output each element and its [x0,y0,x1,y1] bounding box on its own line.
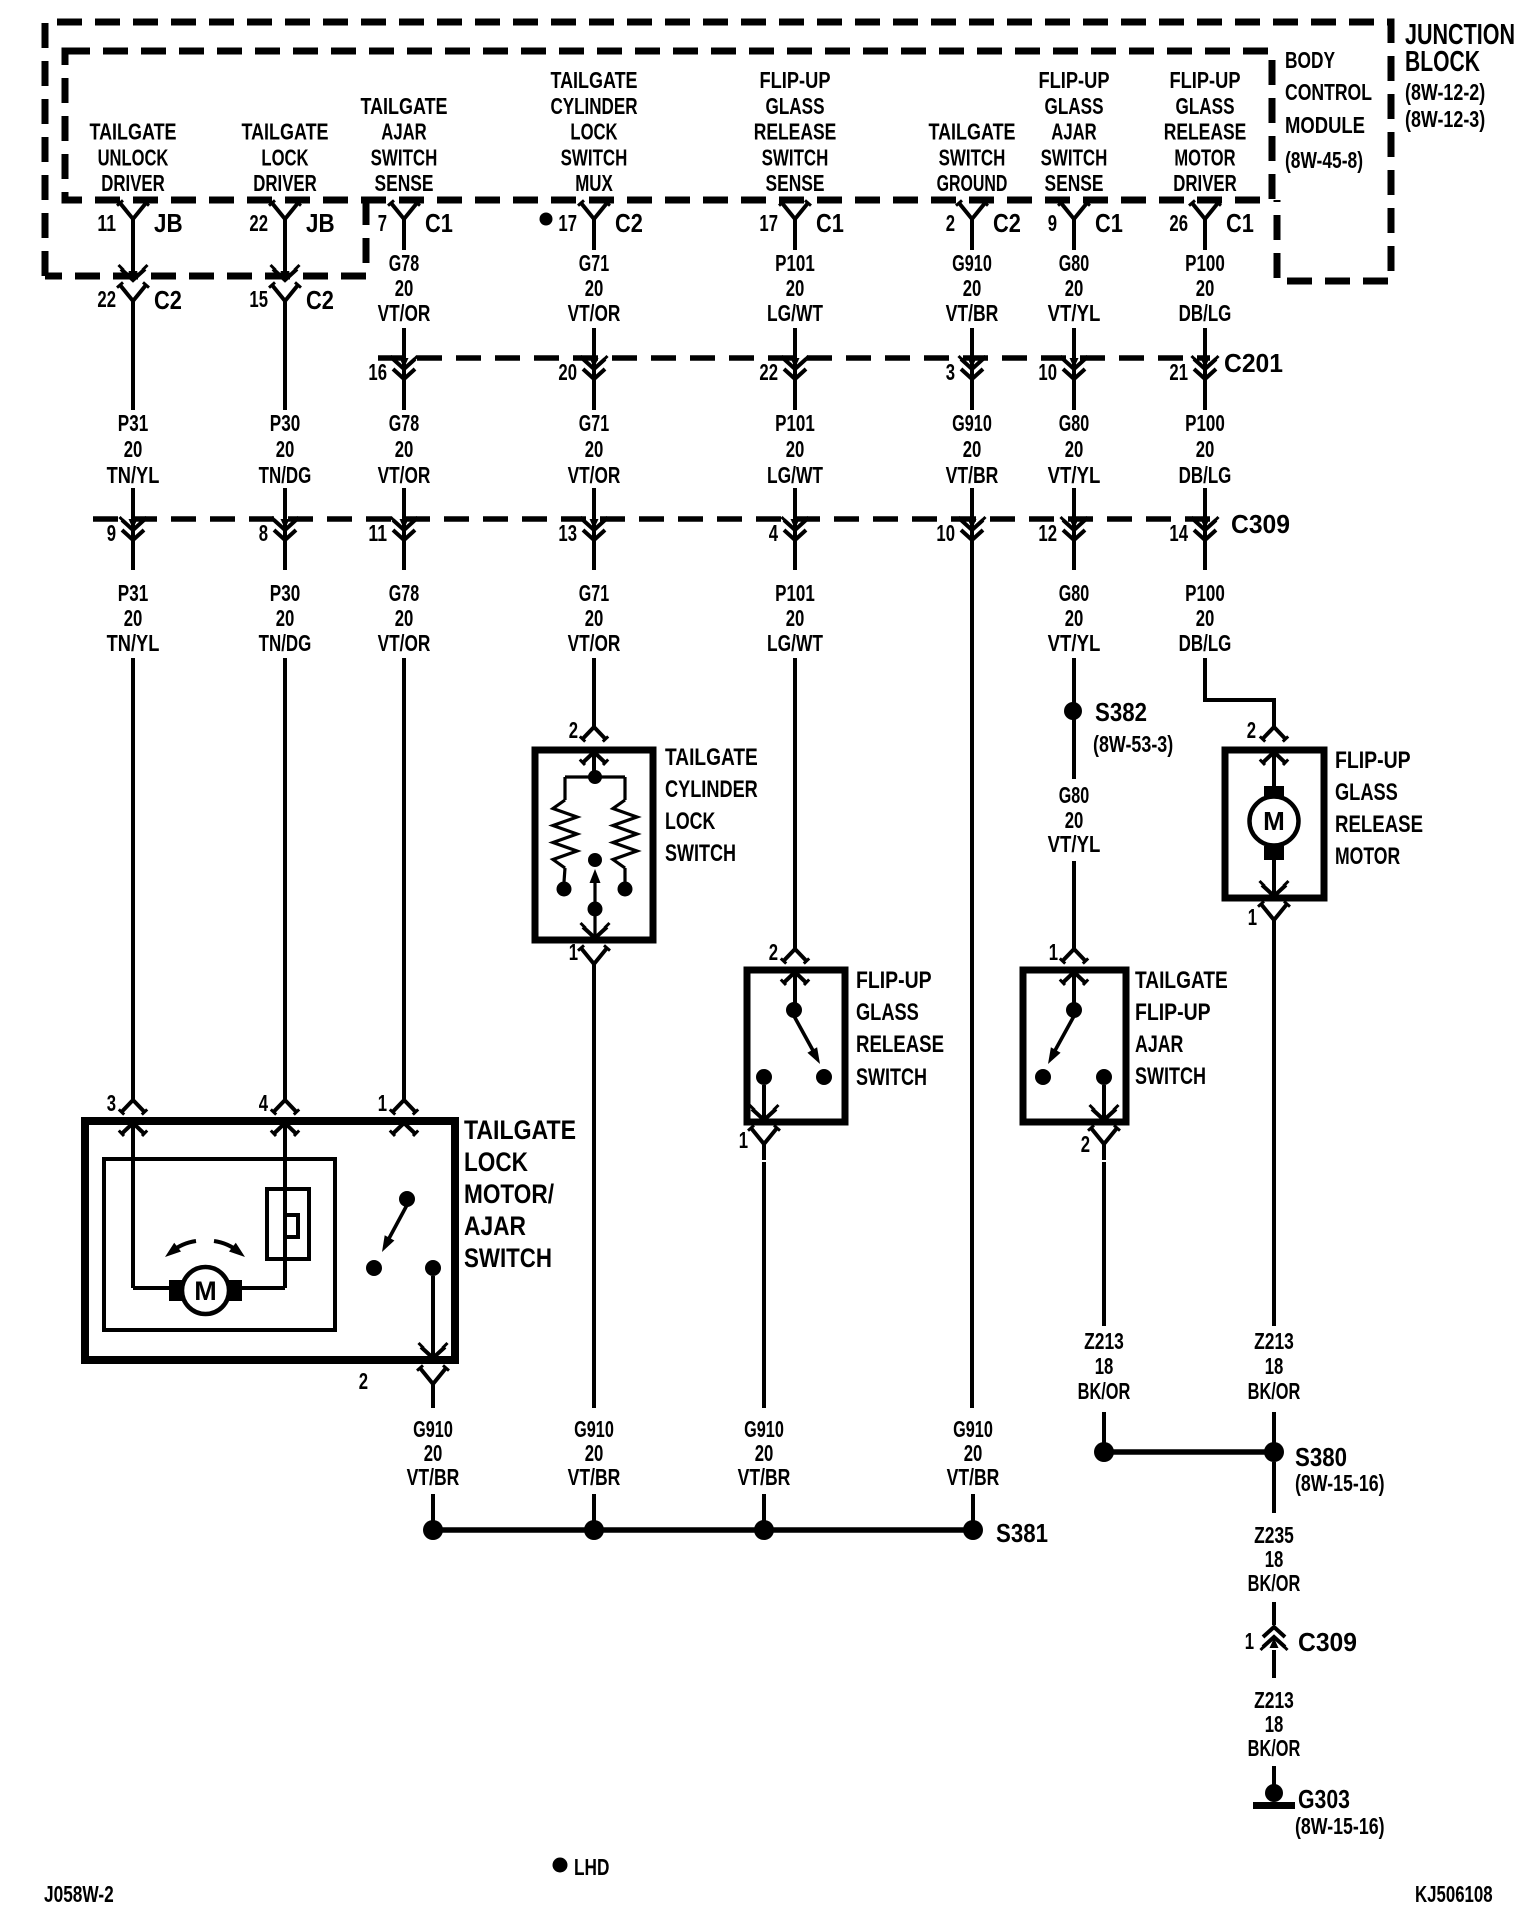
connector C309 pin 8 (col 2) [259,517,299,546]
svg-text:SWITCH: SWITCH [665,840,736,867]
wire label P100/20/DB/LG (row A col 8) [1179,250,1232,326]
connector C2 pin 15 (col 2) [249,282,334,317]
release switch wire to contact [793,972,797,1004]
svg-text:DRIVER: DRIVER [1173,170,1237,196]
svg-text:G910: G910 [574,1416,614,1442]
svg-text:VT/YL: VT/YL [1048,630,1101,656]
flip-up glass release switch (box) [747,970,845,1122]
svg-text:SWITCH: SWITCH [371,144,438,170]
pin label: flip-up glass release motor driver [1164,67,1247,196]
junction block title [1405,19,1515,132]
tailgate lock motor/ajar switch: pin 4 connector [259,1090,300,1116]
svg-text:18: 18 [1265,1353,1284,1379]
wire stub to S381 (lock motor pin 2) [431,1494,435,1522]
svg-text:DRIVER: DRIVER [253,170,317,196]
release switch wire contact to pin 1 [762,1085,766,1120]
wire G910 (col 5) down to splice S381 [762,1162,766,1408]
wire label P30/20/TN/DG (row B col 2) [259,410,312,488]
svg-text:JB: JB [154,208,183,238]
ajar switch contact (lower right) [1096,1069,1112,1085]
lock motor inner box [104,1159,335,1330]
svg-text:18: 18 [1265,1546,1284,1572]
flip-up glass release motor (box) [1225,750,1324,898]
svg-text:TAILGATE: TAILGATE [464,1115,576,1145]
svg-text:SWITCH: SWITCH [561,144,628,170]
cylinder lock switch pin 1 exit arrow [581,923,610,938]
lock motor pin 4 entry arrow [271,1123,299,1136]
svg-text:G303: G303 [1298,1784,1350,1814]
svg-text:TAILGATE: TAILGATE [89,119,176,145]
svg-text:VT/OR: VT/OR [378,300,431,326]
svg-text:SWITCH: SWITCH [939,144,1006,170]
svg-text:20: 20 [786,436,805,462]
ground G303 [1253,1784,1385,1839]
svg-text:20: 20 [1196,605,1215,631]
wire Z213 to ground [1272,1766,1276,1786]
wire P31 (col 1) down to lock motor [131,658,135,1100]
wire Z213 (col 8) down [1272,936,1276,1326]
svg-text:9: 9 [107,520,116,546]
svg-text:BK/OR: BK/OR [1248,1570,1301,1596]
svg-text:20: 20 [964,1440,983,1466]
wire label Z213/18/BK/OR (ground leg) [1248,1687,1301,1761]
svg-text:8: 8 [259,520,268,546]
splice S382 [1064,697,1173,757]
wire Z213 (col 8) to splice S380 [1272,1412,1276,1443]
svg-text:1: 1 [1049,939,1058,965]
wire (col 1) below C2 [131,315,135,410]
svg-text:TAILGATE: TAILGATE [1135,967,1228,994]
junction block exit arrow (col 1) [119,265,148,281]
svg-text:14: 14 [1169,520,1188,546]
pin label: tailgate ajar switch sense [360,93,447,196]
flip-up ajar switch pin 2 connector [1081,1125,1120,1160]
svg-text:20: 20 [963,436,982,462]
svg-text:20: 20 [1196,275,1215,301]
ajar switch moving contact arm [382,1205,407,1252]
svg-text:20: 20 [395,436,414,462]
wire (col 1) label to C309 [131,488,135,570]
wire stub to S381 (col 6) [971,1494,975,1522]
svg-text:TAILGATE: TAILGATE [360,93,447,119]
ajar switch common contact [1066,1002,1082,1018]
motor M2 (flip-up glass release motor) [1250,797,1299,846]
lock motor pin 1 entry arrow [390,1123,418,1136]
tailgate lock motor/ajar switch (box) [85,1121,455,1360]
wire G71 (col 4) down to cylinder lock switch [592,658,596,727]
svg-text:S381: S381 [996,1518,1048,1548]
svg-text:VT/OR: VT/OR [568,300,621,326]
svg-text:GLASS: GLASS [1335,779,1398,806]
release switch pin 1 connector [739,1125,780,1160]
connector C2 pin 17 (tailgate cylinder lock switch mux) [540,200,643,238]
svg-text:P30: P30 [270,410,300,436]
svg-text:G80: G80 [1059,250,1089,276]
wire stub below connector (col 3) [402,233,406,250]
svg-text:J058W-2: J058W-2 [44,1881,114,1907]
component label: tailgate flip-up ajar switch [1135,967,1228,1090]
svg-text:G80: G80 [1059,782,1089,808]
svg-text:11: 11 [368,520,387,546]
resistor branch rail [565,777,625,800]
svg-text:DB/LG: DB/LG [1179,630,1232,656]
contact dot (right) [618,882,633,897]
svg-text:2: 2 [769,939,778,965]
connector C2 pin 22 (col 1) [97,282,182,317]
svg-text:12: 12 [1038,520,1057,546]
svg-text:UNLOCK: UNLOCK [98,144,169,170]
svg-text:18: 18 [1095,1353,1114,1379]
wire (col 7) label to C309 [1072,488,1076,570]
svg-text:TN/YL: TN/YL [107,630,160,656]
svg-text:BK/OR: BK/OR [1248,1735,1301,1761]
svg-text:G78: G78 [389,410,420,436]
wire (col 8) label to C309 [1203,488,1207,570]
svg-text:P100: P100 [1185,410,1225,436]
svg-text:(8W-12-2): (8W-12-2) [1405,79,1485,105]
resistor R-left lower lead [564,868,565,882]
wire G80 (col 7) to splice S382 [1072,658,1076,703]
wire G78 (col 3) down to lock motor [402,658,406,1100]
tailgate cylinder lock switch (box) [535,750,653,940]
wiper node junction [588,770,602,784]
svg-text:C201: C201 [1224,348,1283,378]
release switch pin 2 connector [769,939,810,965]
wiper contact dot (middle upper) [588,853,602,867]
wire label G78/20/VT/OR (row A col 3) [378,250,431,326]
svg-text:10: 10 [936,520,955,546]
svg-text:C309: C309 [1298,1627,1357,1657]
svg-text:GLASS: GLASS [1176,93,1235,119]
svg-text:1: 1 [1245,1628,1254,1654]
svg-text:C1: C1 [816,208,844,238]
wire stub below connector (col 6) [970,233,974,250]
svg-text:G71: G71 [579,410,610,436]
ajar switch moving contact arm [1048,1016,1074,1064]
svg-text:9: 9 [1048,210,1057,236]
splice S381 bus [433,1527,973,1533]
lock motor pin 3 entry arrow [119,1123,147,1136]
svg-text:26: 26 [1169,210,1188,236]
cylinder lock switch pin 2 entry arrow [580,752,608,765]
svg-text:G71: G71 [579,580,610,606]
svg-text:FLIP-UP: FLIP-UP [1135,999,1211,1026]
svg-text:MUX: MUX [575,170,613,196]
svg-text:20: 20 [585,436,604,462]
svg-text:GLASS: GLASS [1045,93,1104,119]
svg-text:16: 16 [368,359,387,385]
ajar switch contact (lower right) [425,1260,441,1276]
wire P101 (col 5) down to release switch [793,658,797,949]
svg-text:(8W-15-16): (8W-15-16) [1295,1813,1385,1839]
svg-text:LOCK: LOCK [570,119,617,145]
svg-text:20: 20 [395,275,414,301]
wire label G910/20/VT/BR (row B col 6) [946,410,999,488]
wire (col 8) label to C201 [1203,328,1207,410]
svg-text:DB/LG: DB/LG [1179,462,1232,488]
wire (col 5) label to C309 [793,488,797,570]
ajar switch contact (common, from pin 1) [399,1191,415,1207]
drawing code KJ506108 [1415,1881,1493,1907]
svg-text:G910: G910 [952,250,992,276]
wire label P30/20/TN/DG (row C col 2) [259,580,312,656]
connector C309 (in-line, dashed) [93,509,1290,539]
body control module label [1285,47,1372,173]
svg-text:20: 20 [585,1440,604,1466]
splice S380 dot (right) [1264,1442,1284,1462]
svg-text:GLASS: GLASS [766,93,825,119]
svg-text:FLIP-UP: FLIP-UP [760,67,831,93]
svg-text:7: 7 [378,210,387,236]
connector C1 pin 17 (flip-up glass release switch sense) [759,200,844,238]
svg-text:P30: P30 [270,580,300,606]
pin label: tailgate unlock driver [89,119,176,196]
connector C201 pin 3 (col 6) [946,356,986,385]
wire (col 7) label to C201 [1072,328,1076,410]
svg-text:21: 21 [1169,359,1188,385]
svg-text:11: 11 [97,210,116,236]
svg-text:CONTROL: CONTROL [1285,79,1372,105]
motor M1 rotation arrows [165,1241,245,1257]
svg-text:SWITCH: SWITCH [762,144,829,170]
svg-text:20: 20 [395,605,414,631]
wire (col 3) label to C309 [402,488,406,570]
svg-text:13: 13 [558,520,577,546]
wiper junction dot (middle lower) [588,902,603,917]
tailgate lock motor pin 2 connector [359,1365,449,1400]
lock motor pin 2 exit arrow [419,1343,448,1358]
connector JB pin 22 (tailgate lock driver) [249,200,334,238]
svg-text:(8W-12-3): (8W-12-3) [1405,106,1485,132]
svg-text:TAILGATE: TAILGATE [928,119,1015,145]
drawing number J058W-2 [44,1881,114,1907]
svg-text:TN/YL: TN/YL [107,462,160,488]
connector C309 pin 14 (col 8) [1169,517,1218,546]
pin label: tailgate switch ground [928,119,1015,196]
svg-text:AJAR: AJAR [464,1211,526,1241]
wire label P100/20/DB/LG (row C col 8) [1179,580,1232,656]
svg-text:Z213: Z213 [1254,1687,1294,1713]
junction block exit arrow (col 2) [271,265,300,281]
svg-text:DB/LG: DB/LG [1179,300,1232,326]
body control module U1 (inner dashed box) [65,51,1272,200]
svg-text:3: 3 [946,359,955,385]
svg-text:4: 4 [259,1090,268,1116]
release motor pin 2 connector [1247,717,1289,743]
svg-text:SWITCH: SWITCH [1041,144,1108,170]
svg-text:Z213: Z213 [1254,1328,1294,1354]
svg-text:VT/BR: VT/BR [947,1464,1000,1490]
svg-text:SWITCH: SWITCH [464,1243,552,1273]
wire label P31/20/TN/YL (row C col 1) [107,580,160,656]
wire inside (pin 4 to latch) [242,1123,285,1288]
svg-text:SWITCH: SWITCH [1135,1063,1206,1090]
release switch pin 2 entry arrow [781,972,809,985]
svg-text:P101: P101 [775,410,815,436]
svg-text:10: 10 [1038,359,1057,385]
splice S381 dot (x=433) [423,1520,443,1540]
svg-text:1: 1 [569,939,578,965]
cylinder lock switch pin 1 connector [569,939,610,980]
svg-text:S382: S382 [1095,697,1147,727]
svg-text:C2: C2 [993,208,1021,238]
svg-text:20: 20 [755,1440,774,1466]
release switch contact (lower right) [816,1069,832,1085]
svg-text:17: 17 [759,210,778,236]
svg-text:G910: G910 [953,1416,993,1442]
wire label P100/20/DB/LG (row B col 8) [1179,410,1232,488]
svg-text:FLIP-UP: FLIP-UP [1170,67,1241,93]
svg-text:FLIP-UP: FLIP-UP [1039,67,1110,93]
resistor R-right (cylinder lock switch) [613,800,637,868]
connector C309 pin 1 (ground leg) [1245,1627,1357,1657]
connector C309 pin 9 (col 1) [107,517,147,546]
svg-text:3: 3 [107,1090,116,1116]
svg-text:1: 1 [1248,904,1257,930]
svg-text:P31: P31 [118,410,149,436]
svg-text:LHD: LHD [574,1854,609,1880]
splice S381 dot (x=764) [754,1520,774,1540]
svg-text:G910: G910 [413,1416,453,1442]
legend: LHD marker [553,1854,610,1880]
svg-text:VT/YL: VT/YL [1048,462,1101,488]
wire stub below connector (col 4) [592,233,596,250]
svg-text:(8W-53-3): (8W-53-3) [1093,731,1173,757]
wire stub below connector (col 8) [1203,233,1207,250]
svg-text:C2: C2 [615,208,643,238]
svg-text:S380: S380 [1295,1442,1347,1472]
wire label G80/20/VT/YL (row B col 7) [1048,410,1101,488]
svg-text:RELEASE: RELEASE [1164,119,1247,145]
svg-text:VT/YL: VT/YL [1048,300,1101,326]
svg-text:LG/WT: LG/WT [767,630,823,656]
wire inside (pin 3 to motor) [133,1123,169,1288]
wire (col 1) JB pin to C2 [131,233,135,276]
wire label Z213/18/BK/OR (col 8) [1248,1328,1301,1404]
svg-text:SWITCH: SWITCH [856,1064,927,1091]
svg-text:VT/YL: VT/YL [1048,831,1101,857]
svg-text:C1: C1 [1095,208,1123,238]
latch striker (lock motor) [267,1189,309,1259]
svg-text:JB: JB [306,208,335,238]
svg-text:VT/OR: VT/OR [568,630,621,656]
pin label: flip-up glass ajar switch sense [1039,67,1110,196]
connector C2 pin 2 (tailgate switch ground) [946,200,1021,238]
svg-text:22: 22 [249,210,268,236]
wire Z235 below S380 [1272,1462,1276,1513]
svg-text:SENSE: SENSE [766,170,825,196]
junction block (outer dashed box) [45,22,1391,281]
component label: flip-up glass release switch [856,967,944,1091]
wire label G80/20/VT/YL (col 7 row D) [1048,782,1101,857]
wire label Z235/18/BK/OR [1248,1522,1301,1596]
svg-text:Z235: Z235 [1254,1522,1294,1548]
connector C201 pin 16 (col 3) [368,356,417,385]
svg-text:20: 20 [276,436,295,462]
svg-text:2: 2 [1081,1131,1090,1157]
wire G910 (col 4) down to splice S381 [592,980,596,1408]
svg-text:M: M [194,1276,217,1306]
ajar switch contact (lower left) [366,1260,382,1276]
svg-text:BODY: BODY [1285,47,1335,73]
connector C1 pin 9 (flip-up glass ajar switch sense) [1048,200,1123,238]
svg-text:VT/OR: VT/OR [378,630,431,656]
svg-text:RELEASE: RELEASE [1335,811,1423,838]
svg-text:AJAR: AJAR [381,119,427,145]
connector C201 pin 20 (col 4) [558,356,607,385]
wire Z213 (col 7) down [1102,1162,1106,1326]
release switch common contact [786,1002,802,1018]
svg-text:20: 20 [585,275,604,301]
ajar switch pin 1 entry arrow [1060,972,1088,985]
svg-text:VT/OR: VT/OR [568,462,621,488]
wire (col 6) label to C201 [970,328,974,410]
svg-text:20: 20 [1065,275,1084,301]
motor M1 terminals [169,1280,242,1301]
resistor R-right lower lead [623,868,626,882]
svg-text:P100: P100 [1185,580,1225,606]
wire Z213 below C309 [1272,1650,1276,1678]
svg-text:FLIP-UP: FLIP-UP [1335,747,1411,774]
wire label G80/20/VT/YL (row A col 7) [1048,250,1101,326]
svg-text:17: 17 [558,210,577,236]
wire G80 (col 7) to ajar switch [1072,861,1076,949]
connector C201 pin 10 (col 7) [1038,356,1087,385]
svg-text:C309: C309 [1231,509,1290,539]
splice S381 dot (x=973) [963,1520,983,1540]
svg-text:LOCK: LOCK [665,808,716,835]
svg-text:G910: G910 [952,410,992,436]
svg-text:TAILGATE: TAILGATE [241,119,328,145]
wire (col 2) below C2 [283,315,287,410]
svg-text:VT/BR: VT/BR [738,1464,791,1490]
svg-text:DRIVER: DRIVER [101,170,165,196]
svg-text:AJAR: AJAR [1135,1031,1184,1058]
wire Z235 to C309 [1272,1602,1276,1625]
splice S380 label [1295,1442,1385,1496]
resistor R-left (cylinder lock switch) [553,800,577,868]
svg-text:20: 20 [1065,436,1084,462]
svg-text:20: 20 [786,605,805,631]
svg-text:20: 20 [1065,807,1084,833]
svg-text:FLIP-UP: FLIP-UP [856,967,932,994]
wire stub to S381 (col 4) [592,1494,596,1522]
svg-text:P101: P101 [775,250,815,276]
ajar switch wire contact to pin 2 [1102,1085,1106,1120]
wire G80 (col 7) below S382 [1072,719,1076,779]
splice S380 bus [1104,1449,1274,1455]
wire label G80/20/VT/YL (row C col 7) [1048,580,1101,656]
contact dot (left) [557,882,572,897]
connector C1 pin 7 (tailgate ajar switch sense) [378,200,453,238]
svg-text:VT/BR: VT/BR [946,300,999,326]
svg-text:18: 18 [1265,1711,1284,1737]
cylinder lock switch wire to wiper node [592,752,596,779]
svg-text:LG/WT: LG/WT [767,462,823,488]
svg-text:C1: C1 [1226,208,1254,238]
svg-text:20: 20 [1196,436,1215,462]
svg-text:C1: C1 [425,208,453,238]
cylinder lock switch pin 2 connector [569,717,609,743]
wire label G71/20/VT/OR (row C col 4) [568,580,621,656]
svg-text:20: 20 [124,605,143,631]
wire label G910/20/VT/BR (row A col 6) [946,250,999,326]
svg-text:20: 20 [1065,605,1084,631]
svg-text:2: 2 [946,210,955,236]
svg-text:22: 22 [97,286,116,312]
wire label G910/20/VT/BR (col 6) [947,1416,1000,1490]
svg-text:VT/OR: VT/OR [378,462,431,488]
